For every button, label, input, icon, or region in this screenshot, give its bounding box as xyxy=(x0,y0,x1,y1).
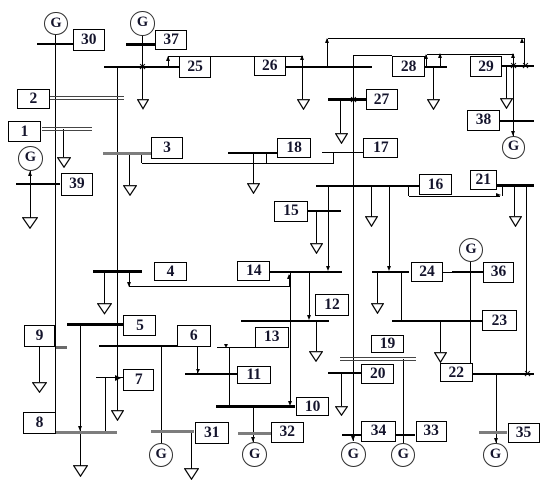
load arrow bus 28 xyxy=(427,99,440,110)
arrowhead G35 link xyxy=(494,438,498,443)
node 33 label xyxy=(416,421,447,441)
node 1 label xyxy=(8,121,42,142)
load arrow bus 21 xyxy=(509,216,522,227)
bus 34 xyxy=(342,434,362,436)
arrowhead 28-29 left xyxy=(424,54,428,59)
wire 16-21 branch xyxy=(409,196,500,197)
wire bus 13 to load 12 xyxy=(316,321,317,352)
generator G31 xyxy=(149,443,173,467)
load arrow bus 9 xyxy=(32,382,47,393)
node 38 label xyxy=(467,110,500,131)
bus 39 xyxy=(16,183,61,185)
bus 14 xyxy=(270,271,342,273)
node 20 label xyxy=(361,364,395,385)
wire load 3 drop xyxy=(129,153,130,185)
generator G37 xyxy=(130,11,155,36)
bus 35 xyxy=(479,431,507,434)
generator G35 xyxy=(483,443,507,467)
node 18 label xyxy=(277,138,311,159)
wire load 18 drop xyxy=(253,153,254,184)
bus 2 double bar xyxy=(50,96,124,100)
bus 29 xyxy=(502,65,534,67)
wire bus 14 to bus 10 xyxy=(290,272,291,402)
wire 3-18 left stub xyxy=(141,153,142,163)
wire load 24 drop xyxy=(377,272,378,304)
wire load 28 drop xyxy=(433,67,434,98)
junction tick bus 27 xyxy=(350,97,356,103)
load arrow bus 4 xyxy=(97,303,112,315)
node 10 label xyxy=(296,397,330,416)
wire load 31 drop xyxy=(191,432,192,469)
node 39 label xyxy=(61,173,94,196)
arrowhead 28-29 mid xyxy=(438,53,442,58)
wire 24-36 link xyxy=(443,272,483,273)
arrowhead G32 link xyxy=(251,437,255,442)
node 23 label xyxy=(482,310,517,331)
node 29 label xyxy=(470,56,503,77)
node 12 label xyxy=(315,294,349,316)
arrowhead G38 link xyxy=(511,131,515,136)
arrowhead box6-11 stub xyxy=(196,369,200,373)
arrowhead 5-8 bottom xyxy=(78,426,82,431)
wire load 27 drop xyxy=(340,100,341,133)
arrowhead 28-29 right xyxy=(511,53,515,58)
bus 25 xyxy=(104,66,179,68)
bus 11 xyxy=(185,373,237,375)
wire 3-18-17 run xyxy=(142,163,334,164)
wire 14-13 branch xyxy=(309,272,310,318)
bus 32 xyxy=(238,432,271,435)
wire load 26 drop and 25-26 stub xyxy=(302,56,303,99)
arrowhead 26-29 left xyxy=(325,38,329,43)
wire 26-28 branch xyxy=(353,55,392,56)
bus 30 xyxy=(37,43,72,45)
load arrow bus 15 xyxy=(310,243,323,254)
bus 4 xyxy=(93,270,142,272)
generator G39 xyxy=(18,146,43,171)
wire 26-29 branch top xyxy=(328,38,525,39)
bus 20 xyxy=(328,372,361,374)
wire load 29 drop xyxy=(506,66,507,99)
wire 25-26 branch xyxy=(169,56,303,57)
wire 28-29 mid stub xyxy=(440,55,441,68)
node 2 label xyxy=(17,89,51,110)
wire 16-24 branch xyxy=(389,186,390,267)
junction tick bus 22 xyxy=(524,371,530,377)
bus 27 xyxy=(328,98,366,100)
bus 1 double bar xyxy=(42,127,92,131)
node 6 label xyxy=(177,325,211,348)
bus 16 xyxy=(316,185,419,187)
arrowhead 4-14 left xyxy=(127,282,131,287)
junction tick bus 25 gen 37 xyxy=(140,64,146,70)
arrowhead bus 13 link xyxy=(224,344,228,348)
wire load 21 drop xyxy=(514,186,515,217)
node 21 label xyxy=(470,170,497,191)
generator G33 xyxy=(391,443,415,467)
node 28 label xyxy=(392,56,425,78)
node 36 label xyxy=(483,262,515,283)
wire 21-22 branch xyxy=(526,186,527,374)
wire 16-21 right stub xyxy=(502,186,503,197)
wire box 6 to bus 11 xyxy=(197,347,198,374)
junction tick bus 29 right xyxy=(523,63,529,69)
bus 28 xyxy=(424,66,447,68)
wire 28-29 branch xyxy=(427,54,514,55)
generator G38 xyxy=(502,136,525,159)
load arrow bus 18 xyxy=(247,183,260,194)
wire 17 link xyxy=(322,152,364,153)
bus 13 xyxy=(241,320,330,322)
load arrow bus 27 xyxy=(335,133,348,144)
node 37 label xyxy=(155,30,187,51)
wire G30 to bus 8 vertical xyxy=(55,35,56,433)
bus 22 xyxy=(473,373,534,376)
wire load 39 drop xyxy=(30,184,31,218)
node 26 label xyxy=(254,56,286,77)
wire load 20 drop xyxy=(341,373,342,405)
wire bus 19 to G33 xyxy=(403,359,404,444)
load arrow bus 16 xyxy=(365,216,378,227)
wire 4-14 run xyxy=(129,286,289,287)
wire bus 10 to G32 xyxy=(253,406,254,442)
wire bus 22 to G35 xyxy=(496,374,497,444)
bus 6 xyxy=(99,345,177,347)
arrowhead G34 link xyxy=(351,436,355,441)
wire 28-29 right stub xyxy=(513,55,514,66)
bus 36 xyxy=(452,271,483,273)
wire G39 link xyxy=(30,171,31,184)
bus 18 xyxy=(228,152,277,154)
bus 38 xyxy=(500,120,534,122)
arrowhead G39 link xyxy=(28,171,32,176)
node 25 label xyxy=(179,56,212,78)
wire 4-14 left stub xyxy=(129,272,130,288)
node 17 label xyxy=(363,138,398,159)
bus 10 xyxy=(216,405,295,407)
wire load 23 drop xyxy=(440,321,441,352)
wire 29-38 branch to G38 xyxy=(513,66,514,137)
wire 26-29 right stub xyxy=(524,39,525,66)
wire G36 to bus 23 to bus 22 xyxy=(470,261,471,363)
bus 15 xyxy=(308,210,341,212)
bus 7 xyxy=(96,377,123,378)
wire load 1 drop xyxy=(63,129,64,157)
bus 26 xyxy=(286,66,372,68)
wire 4-14 right stub xyxy=(289,275,290,288)
bus 31 xyxy=(151,430,195,433)
node 15 label xyxy=(274,201,307,222)
node 11 label xyxy=(237,366,271,385)
wire bus 26 down to G34 vertical xyxy=(353,55,354,441)
node 5 label xyxy=(123,315,156,337)
wire 5-8 branch and load 8 xyxy=(80,325,81,467)
load arrow bus 31 xyxy=(184,468,199,480)
bus 37 xyxy=(126,43,155,45)
bus 8 xyxy=(56,431,117,434)
load arrow bus 3 xyxy=(123,185,137,196)
arrowhead 14-10 bottom xyxy=(288,401,292,406)
bus 24 xyxy=(372,271,409,273)
wire 17 link stub xyxy=(333,153,334,164)
wire 18 bar stub xyxy=(266,153,267,164)
load arrow bus 26 xyxy=(297,99,310,110)
wire 16-21 left stub xyxy=(408,186,409,197)
arrowhead 16-24 bottom xyxy=(387,266,391,271)
arrowhead 16-14 bottom xyxy=(326,266,330,271)
node 34 label xyxy=(361,421,396,441)
wire bus 13 left link xyxy=(217,347,256,348)
wire 25-26 left stub xyxy=(168,56,169,66)
node 13 label xyxy=(255,327,289,348)
wire bus 25 to load-7 vertical xyxy=(117,67,118,411)
junction tick bus 29 left xyxy=(511,63,517,69)
wire link to bus 11 to bus 10 xyxy=(229,348,230,407)
arrowhead 26-29 corner xyxy=(520,38,524,43)
wire G37 through bus 37 and 25 to load xyxy=(142,36,143,99)
load arrow bus 24 xyxy=(371,303,384,314)
node 3 label xyxy=(151,137,184,159)
node 4 label xyxy=(154,262,188,281)
bus 5 xyxy=(67,323,124,325)
node 16 label xyxy=(419,174,452,195)
wire load 16 drop xyxy=(371,186,372,217)
node 31 label xyxy=(195,422,230,444)
load arrow bus 7 line xyxy=(111,410,124,421)
generator G32 xyxy=(242,442,267,467)
wire 28-29 left stub xyxy=(426,55,427,68)
bus 9 stub bar xyxy=(56,346,67,349)
wire load 4 drop xyxy=(104,272,105,304)
arrowhead 16-21 end xyxy=(496,193,501,197)
wire load 15 drop xyxy=(316,211,317,243)
node 30 label xyxy=(73,29,106,51)
bus 33 xyxy=(396,434,416,436)
wire 16-15-14 branch xyxy=(328,186,329,266)
load arrow bus 1 xyxy=(57,157,71,168)
load arrow bus 8 xyxy=(73,465,88,477)
load arrow bus 20 xyxy=(335,406,348,416)
wire 26-29 left stub xyxy=(327,39,328,67)
bus 21 xyxy=(497,184,534,186)
wire 7-8 branch xyxy=(105,378,106,433)
node 19 label xyxy=(371,335,404,353)
arrowhead 25-26 left xyxy=(166,56,170,61)
node 32 label xyxy=(271,422,304,443)
load arrow bus 12 xyxy=(309,351,323,362)
arrowhead 25-26 right xyxy=(300,55,304,60)
arrowhead 14-13 bottom xyxy=(307,315,311,320)
node 7 label xyxy=(123,369,155,391)
bus 23 xyxy=(392,320,482,322)
load arrow bus 29 xyxy=(500,98,513,109)
wire bus 6 to G31 xyxy=(161,346,162,443)
arrowhead 4-14 right xyxy=(287,274,291,279)
load arrow bus 23 xyxy=(434,352,447,363)
load arrow bus 39 xyxy=(22,217,38,229)
generator G36 xyxy=(459,238,483,262)
node 9 label xyxy=(24,325,56,348)
generator G34 xyxy=(341,442,366,467)
arrowhead bus 7 end xyxy=(115,375,121,381)
wire load 9 drop xyxy=(39,347,40,382)
load arrow bus 25 xyxy=(137,99,149,110)
bus 3 xyxy=(103,152,150,155)
generator G30 xyxy=(44,12,67,35)
node 14 label xyxy=(237,261,270,281)
node 27 label xyxy=(366,89,398,110)
wire 24-23 branch xyxy=(401,272,402,321)
bus 19 double bar xyxy=(340,357,416,361)
node 24 label xyxy=(411,262,443,282)
node 8 label xyxy=(23,412,56,434)
node 35 label xyxy=(508,423,540,444)
node 22 label xyxy=(440,363,473,383)
